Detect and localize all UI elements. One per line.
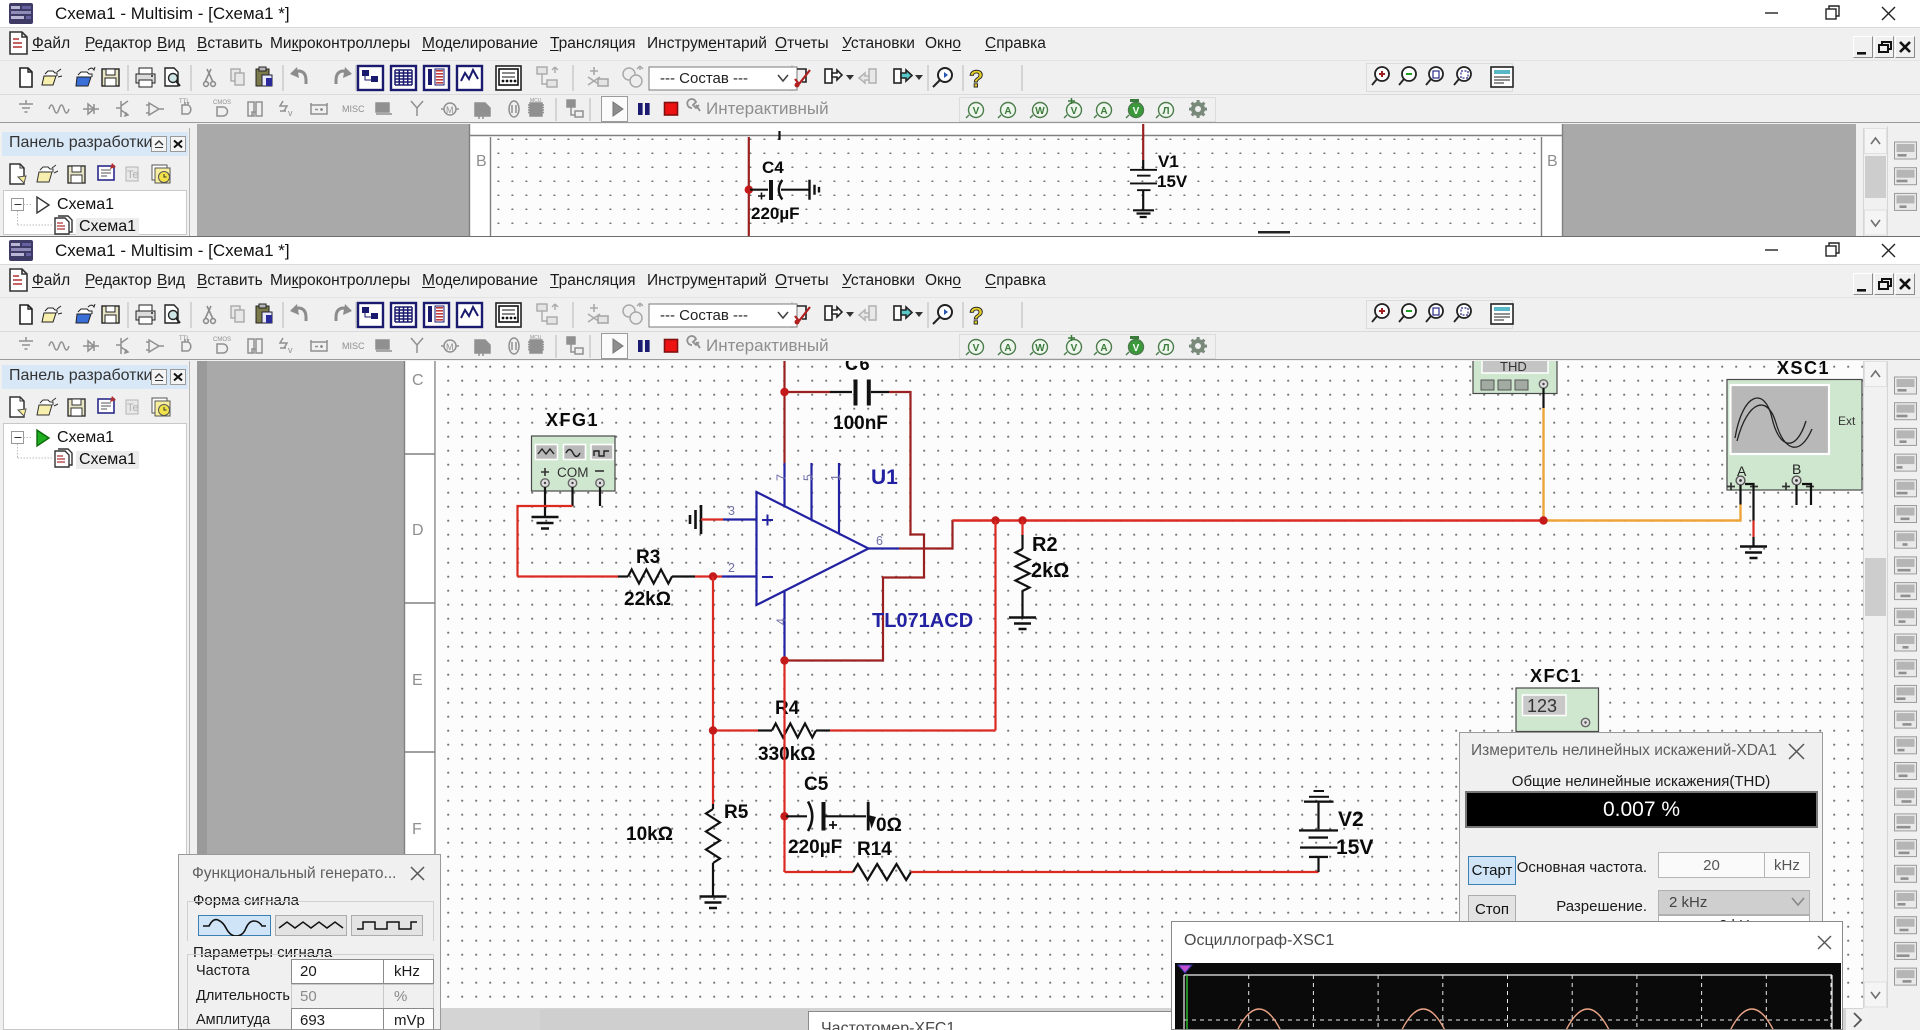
label C5 <box>804 774 829 795</box>
svg-text:MCU: MCU <box>530 335 542 341</box>
wire bottom rail right to V2 <box>911 871 1319 873</box>
pin 1 <box>829 463 843 534</box>
svg-text:W: W <box>1035 343 1045 354</box>
svg-text:15V: 15V <box>1336 836 1373 859</box>
wire bottom rail left <box>785 871 854 873</box>
node C5 junction <box>780 812 788 820</box>
svg-text:A: A <box>1004 106 1011 117</box>
label XFG1 <box>546 410 599 430</box>
svg-text:COM: COM <box>557 465 589 480</box>
svg-text:E: E <box>412 672 423 689</box>
svg-text:--- Состав ---: --- Состав --- <box>660 307 748 324</box>
label R2 <box>1032 534 1058 556</box>
svg-text:Ext: Ext <box>1838 414 1856 428</box>
wire C6 to V- (staircase) <box>786 392 924 661</box>
svg-text:CMOS: CMOS <box>213 100 231 106</box>
svg-text:W: W <box>1035 106 1045 117</box>
label C4 <box>762 158 784 177</box>
node output junction 2 (R2 tap) <box>1018 516 1026 524</box>
svg-text:MCU: MCU <box>530 98 542 104</box>
label C5 value 220uF <box>788 837 842 858</box>
svg-text:R4: R4 <box>775 698 800 719</box>
svg-text:Л: Л <box>1162 106 1169 117</box>
svg-text:R14: R14 <box>857 839 892 860</box>
capacitor C6 100nF <box>830 380 889 406</box>
ground (R2) <box>1009 618 1036 630</box>
svg-text:MISC: MISC <box>342 341 365 351</box>
node pin2 junction <box>709 572 717 580</box>
svg-text:XFG1: XFG1 <box>546 410 599 430</box>
wire XSC1 A+ stub <box>1739 485 1741 505</box>
label XSC1 (clipped at canvas top) <box>1777 358 1830 378</box>
svg-text:B: B <box>1547 153 1558 170</box>
window 1 (back) <box>0 0 1920 236</box>
svg-text:R2: R2 <box>1032 534 1058 556</box>
svg-text:MISC: MISC <box>342 104 365 114</box>
capacitor C5 220uF <box>786 802 866 832</box>
wire XFG1 COM to R3 <box>518 506 619 577</box>
svg-text:V: V <box>1133 106 1140 117</box>
svg-text:CMOS: CMOS <box>213 337 231 343</box>
wire R4 left <box>713 729 758 731</box>
wire stub (clipped component above) <box>778 131 780 140</box>
wire XSC1 B stubs <box>1797 484 1812 505</box>
resistor R2 <box>1016 521 1030 618</box>
ground (XFG1 plus pin) <box>532 517 559 529</box>
svg-text:1: 1 <box>829 474 843 481</box>
frequency counter XFC1 icon <box>1516 688 1599 732</box>
svg-text:?: ? <box>969 303 984 330</box>
wire output to node <box>899 521 953 549</box>
svg-text:Интерактивный: Интерактивный <box>706 336 829 355</box>
svg-text:2kΩ: 2kΩ <box>1031 560 1069 582</box>
svg-text:M: M <box>446 342 454 352</box>
resistor R4 <box>758 724 830 738</box>
battery V1 <box>1130 169 1157 210</box>
svg-text:0Ω: 0Ω <box>876 815 902 836</box>
pin 4 (V-) <box>775 591 789 659</box>
svg-text:V2: V2 <box>1338 808 1364 831</box>
svg-text:100nF: 100nF <box>833 413 888 434</box>
battery V2 <box>1299 790 1338 872</box>
svg-text:Л: Л <box>1162 343 1169 354</box>
svg-text:123: 123 <box>1527 696 1557 716</box>
svg-text:22kΩ: 22kΩ <box>624 589 671 610</box>
label V2 value 15V <box>1336 836 1373 859</box>
wire C4 net vertical <box>748 137 750 236</box>
svg-text:C6: C6 <box>845 361 871 374</box>
pin 6 output <box>869 534 900 549</box>
svg-text:2: 2 <box>728 561 735 575</box>
svg-text:M: M <box>446 105 454 115</box>
resistor R3 <box>618 570 695 584</box>
label R3 <box>636 547 660 568</box>
svg-text:XSC1: XSC1 <box>1777 361 1830 378</box>
label V1 <box>1158 152 1179 171</box>
label R2 value 2kOhm <box>1031 560 1069 582</box>
node output junction 1 <box>991 516 999 524</box>
oscilloscope XSC1 icon <box>1727 380 1862 491</box>
ground (R5) <box>700 897 727 909</box>
svg-text:R5: R5 <box>724 802 749 823</box>
svg-text:A: A <box>1100 343 1107 354</box>
node V- junction <box>780 656 788 664</box>
wire V1 top <box>1142 124 1144 169</box>
label C6 value 100nF <box>833 413 888 434</box>
svg-text:THD: THD <box>1500 361 1527 374</box>
svg-text:7: 7 <box>775 474 789 481</box>
svg-text:C4: C4 <box>762 158 784 177</box>
ground (V1) <box>1133 210 1154 217</box>
svg-text:TTL: TTL <box>179 336 190 342</box>
ground (C4, rotated right) <box>810 180 820 200</box>
label fragment (clipped by window below) <box>1258 231 1290 234</box>
svg-text:4: 4 <box>775 618 789 625</box>
label R4 <box>775 698 800 719</box>
svg-text:V1: V1 <box>1158 152 1179 171</box>
svg-text:V: V <box>1071 106 1078 117</box>
svg-text:Te: Te <box>127 169 139 181</box>
svg-text:A: A <box>1737 463 1747 479</box>
svg-text:B: B <box>476 153 487 170</box>
svg-text:Te: Te <box>127 402 139 414</box>
label V2 <box>1338 808 1364 831</box>
svg-text:TTL: TTL <box>179 99 190 105</box>
ground (XSC1 A-) <box>1740 547 1767 559</box>
label U1 <box>871 466 898 489</box>
svg-text:V: V <box>1071 343 1078 354</box>
label R14 value 10Ohm (overlapped) <box>867 802 902 836</box>
svg-text:TL071ACD: TL071ACD <box>872 610 973 632</box>
resistor R5 <box>706 804 720 896</box>
svg-text:330kΩ: 330kΩ <box>758 744 816 765</box>
wire inverting node down to R5 <box>712 577 714 805</box>
label TL071ACD <box>872 610 973 632</box>
svg-text:v: v <box>288 345 293 355</box>
label R3 value 22kOhm <box>624 589 671 610</box>
svg-text:--- Состав ---: --- Состав --- <box>660 70 748 87</box>
wire XSC1 A- to ground <box>1745 484 1754 547</box>
wire R4 right <box>830 729 996 731</box>
label R14 <box>857 839 892 860</box>
window 2 (front) <box>0 236 1920 1030</box>
svg-text:A: A <box>1004 343 1011 354</box>
svg-text:C: C <box>412 372 424 389</box>
node C4 junction <box>745 186 753 194</box>
svg-text:U1: U1 <box>871 466 898 489</box>
svg-text:V: V <box>973 106 980 117</box>
svg-text:5: 5 <box>802 474 816 481</box>
ground (pin 3) <box>690 505 701 534</box>
label XFC1 <box>1530 666 1582 686</box>
label R5 <box>724 802 749 823</box>
wire V- node down to bottom rail <box>783 661 785 873</box>
label R5 value 10kOhm <box>626 824 673 845</box>
function generator XFG1 <box>532 436 616 517</box>
svg-text:10kΩ: 10kΩ <box>626 824 673 845</box>
pin 7 (V+) <box>775 463 789 507</box>
resistor R14 <box>853 864 911 880</box>
svg-text:D: D <box>412 522 424 539</box>
svg-text:C5: C5 <box>804 774 829 795</box>
wire pin 3 <box>701 504 757 520</box>
svg-text:R3: R3 <box>636 547 660 568</box>
wire XDA1 tap (orange) <box>1544 408 1741 521</box>
label C4 value 220uF <box>751 204 800 223</box>
op-amp U1 triangle <box>757 492 869 605</box>
wire output node down to R4 <box>994 521 996 731</box>
svg-text:15V: 15V <box>1157 172 1188 191</box>
node V+ junction <box>780 388 788 396</box>
distortion analyzer XDA1 icon (clipped at top) <box>1473 353 1557 408</box>
pin 5 <box>802 463 816 520</box>
svg-text:3: 3 <box>728 504 735 518</box>
svg-text:?: ? <box>969 66 984 93</box>
svg-text:XFC1: XFC1 <box>1530 666 1582 686</box>
wire pin 2 <box>695 561 757 577</box>
svg-text:V: V <box>1133 343 1140 354</box>
svg-text:220µF: 220µF <box>751 204 800 223</box>
svg-text:v: v <box>288 108 293 118</box>
svg-text:F: F <box>412 821 422 838</box>
label R4 value 330kOhm <box>758 744 816 765</box>
svg-text:V: V <box>973 343 980 354</box>
capacitor C4 220uF <box>750 180 809 200</box>
svg-text:220µF: 220µF <box>788 837 842 858</box>
svg-text:6: 6 <box>876 534 883 548</box>
label C6 (clipped at canvas top) <box>845 354 871 374</box>
svg-text:B: B <box>1792 461 1801 477</box>
node XDA1 tap junction <box>1539 516 1547 524</box>
wire output bus <box>953 519 1544 521</box>
svg-text:A: A <box>1100 106 1107 117</box>
wire V+ rail to pin 7 <box>785 361 831 463</box>
node R4/R5 junction <box>709 726 717 734</box>
svg-text:Интерактивный: Интерактивный <box>706 99 829 118</box>
label V1 value 15V <box>1157 172 1188 191</box>
